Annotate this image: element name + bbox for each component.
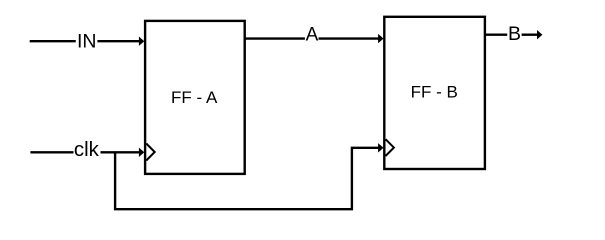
wire A (right segment into FF-B D input)	[319, 37, 379, 39]
arrowhead clk at FF-A	[139, 148, 144, 157]
wire clk (right segment into FF-A CLK input)	[101, 151, 140, 153]
arrowhead clk branch at FF-B	[378, 143, 383, 152]
svg-text:clk: clk	[74, 138, 100, 161]
clock input triangle on FF-A (pin CLK)	[146, 144, 154, 161]
wire IN (right segment into FF-A D input)	[97, 40, 139, 42]
svg-text:B: B	[508, 23, 521, 45]
flip-flop FF-A body	[145, 21, 245, 174]
wire B from FF-B Q output (left segment)	[485, 34, 507, 36]
flip-flop FF-A label "FF - A"	[171, 88, 218, 107]
arrowhead B output	[537, 30, 542, 39]
wire IN (left segment)	[30, 40, 76, 42]
svg-text:A: A	[306, 25, 319, 46]
label node A	[306, 25, 319, 46]
wire clk (left segment)	[30, 151, 73, 153]
label IN	[77, 31, 97, 53]
clock input triangle on FF-B (pin CLK)	[386, 139, 394, 156]
label clk	[74, 138, 100, 161]
svg-text:FF - A: FF - A	[171, 88, 218, 107]
svg-text:IN: IN	[77, 31, 97, 53]
wire A from FF-A Q output (left segment)	[245, 37, 305, 39]
flip-flop FF-B label "FF - B"	[411, 83, 458, 102]
flip-flop FF-B body	[384, 17, 485, 169]
label B	[508, 23, 521, 45]
wire clk branch from node to FF-B CLK (down, across bottom, up)	[115, 148, 378, 209]
wire B (right segment to output)	[522, 34, 538, 36]
arrowhead A at FF-B	[378, 34, 383, 43]
svg-text:FF - B: FF - B	[411, 83, 458, 102]
arrowhead IN at FF-A	[139, 37, 144, 46]
